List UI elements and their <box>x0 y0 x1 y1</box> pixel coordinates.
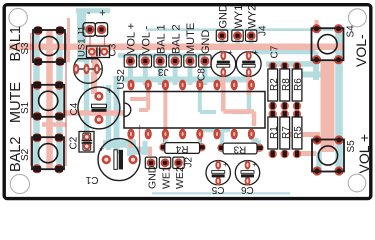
wire R2-R1 link <box>272 107 274 113</box>
wire left of J2 <box>143 141 148 155</box>
wire US1 area vertical a <box>84 57 90 133</box>
svg-text:+: + <box>252 160 257 169</box>
svg-text:WE1: WE1 <box>160 166 172 189</box>
wire right mid vertical <box>313 60 319 80</box>
wire J3 pad4 to US2 <box>173 61 178 85</box>
wire resistor tops to S4 teal <box>266 61 318 67</box>
wire inside US2 left b <box>139 88 148 110</box>
wire R5 to S5 <box>290 132 320 137</box>
wire US2 to R4 red a <box>163 134 165 142</box>
wire horizontal between J3 and US2 <box>122 77 252 83</box>
mounting hole bottom-right <box>348 174 366 192</box>
svg-text:GND: GND <box>146 165 158 189</box>
wire J4 pad2 down <box>235 36 240 48</box>
wire J3 pad5 to US2 <box>188 61 193 85</box>
svg-text:+: + <box>107 86 112 96</box>
wire J3 pad1 to US2 <box>128 61 133 85</box>
svg-text:J2: J2 <box>184 157 195 168</box>
wire long horizontal band <box>9 44 343 51</box>
wire R8-R7 link <box>284 107 286 113</box>
wire J3 pad3 to US2 <box>158 61 163 85</box>
svg-text:R5: R5 <box>293 126 304 139</box>
capacitor C3 <box>87 43 119 57</box>
capacitor C4 electrolytic <box>69 86 120 129</box>
wire R6-R5 link <box>296 107 298 113</box>
wire left button column teal 2 <box>56 28 63 169</box>
wire under resistor R6 R5 column <box>295 64 300 156</box>
resistor R3 <box>217 143 263 154</box>
wire US2 to R3 right <box>251 134 258 146</box>
svg-text:BAL 2: BAL 2 <box>170 24 182 54</box>
board outline frame <box>4 5 371 199</box>
svg-text:C7: C7 <box>270 45 281 58</box>
resistor R8 <box>280 62 292 110</box>
svg-text:R8: R8 <box>281 78 292 91</box>
capacitor C6 electrolytic <box>235 160 259 195</box>
svg-text:C8: C8 <box>197 68 208 81</box>
wire C4-C1 vertical b <box>114 76 120 154</box>
wire US2 to R3 left <box>217 130 222 145</box>
svg-text:S5: S5 <box>346 140 357 153</box>
wire below US2 horizontal <box>200 128 230 133</box>
svg-text:C1: C1 <box>85 174 98 185</box>
wire US1 area vertical b <box>92 57 98 90</box>
wire left button column teal 1 <box>33 28 40 169</box>
wire C3 to US1 <box>93 48 99 70</box>
mounting hole top-left <box>9 8 27 26</box>
capacitor C5 electrolytic <box>206 160 230 195</box>
resistor R1 <box>268 110 280 158</box>
svg-text:C5: C5 <box>211 184 224 195</box>
svg-text:WE2: WE2 <box>174 166 186 189</box>
wire top right thin <box>146 28 333 31</box>
wire teal inside US2 b <box>200 88 216 112</box>
wire US2 to R4 red b <box>200 134 202 142</box>
mounting hole bottom-left <box>10 174 29 193</box>
svg-text:R6: R6 <box>293 78 304 91</box>
wire S1 to C4 horizontal <box>64 110 124 116</box>
wire C8 into US2 <box>223 72 254 126</box>
wire J1 to C3 b <box>104 35 106 46</box>
resistor R2 <box>268 62 280 110</box>
capacitor C1 electrolytic <box>85 139 140 185</box>
pushbutton S5 <box>312 135 357 175</box>
wire under resistor R8 R7 column <box>282 64 287 156</box>
svg-text:VOL-: VOL- <box>353 34 369 67</box>
wire J3 pad6 to US2 <box>202 61 207 85</box>
wire left button column pink <box>46 30 53 169</box>
header J3 <box>124 23 212 77</box>
wire inside US2 left <box>163 88 167 132</box>
wire red right outer <box>65 33 67 166</box>
wire J1 vertical down to US1 <box>77 11 86 62</box>
pushbutton S1 <box>20 81 64 121</box>
svg-text:R2: R2 <box>269 78 280 91</box>
svg-text:C4: C4 <box>69 102 80 115</box>
svg-text:C2: C2 <box>69 136 80 149</box>
wire S4 top stub <box>315 20 319 27</box>
transistor US1 <box>73 59 102 84</box>
wire C7 to S4 teal <box>252 52 316 60</box>
wire C4-C1 vertical a <box>106 85 112 150</box>
svg-text:WY2: WY2 <box>247 5 259 29</box>
svg-text:BAL 1: BAL 1 <box>155 24 167 54</box>
wire inside US2 pink horizontal <box>130 97 148 101</box>
wire J4 pad3 down <box>249 36 254 45</box>
wire red near C1 <box>139 125 141 152</box>
svg-text:US2: US2 <box>115 69 127 90</box>
wire pink traces top copper layer <box>9 18 343 169</box>
connector J1 <box>77 7 108 57</box>
wire US2 pin1 down pink <box>129 136 133 148</box>
svg-text:VOL -: VOL - <box>141 25 153 54</box>
IC US2 pads <box>127 80 255 140</box>
resistor R5 <box>292 110 304 158</box>
mounting hole top-right <box>348 9 366 27</box>
svg-text:R3: R3 <box>233 143 246 154</box>
wire under resistor R2 R1 column <box>270 64 275 156</box>
svg-text:S2: S2 <box>20 148 31 161</box>
wire red left outer <box>30 33 32 166</box>
svg-text:S3: S3 <box>20 42 31 55</box>
svg-text:WY1: WY1 <box>233 5 245 29</box>
header J2 <box>145 157 194 190</box>
capacitor C2 <box>69 132 95 153</box>
capacitor C8 electrolytic <box>197 48 236 81</box>
wire C7 into US2 <box>246 72 251 95</box>
resistor R7 <box>280 110 292 158</box>
svg-text:+: + <box>99 8 105 20</box>
wire left of J1 pink <box>67 18 70 62</box>
svg-text:S4: S4 <box>346 25 357 38</box>
svg-text:C3: C3 <box>108 43 119 56</box>
svg-text:R4: R4 <box>175 143 188 154</box>
wire top-left horizontal to J1 <box>76 8 110 13</box>
wire teal inside US2 <box>232 85 249 112</box>
wire C1 teal area <box>103 140 136 148</box>
wire bottom long thin <box>152 192 290 194</box>
IC US2 DIP-16 <box>115 69 265 128</box>
svg-text:VOL +: VOL + <box>126 23 138 54</box>
wire J1 to C3 a <box>89 35 91 46</box>
wire teal traces bottom copper layer <box>37 11 340 194</box>
pushbutton S2 <box>20 133 64 173</box>
svg-text:J4: J4 <box>258 25 269 36</box>
svg-text:J3: J3 <box>158 66 169 77</box>
pushbutton S3 <box>20 26 65 66</box>
wire right mid horizontal <box>301 72 322 78</box>
svg-text:S1: S1 <box>20 101 31 114</box>
wire thin red airwires <box>31 33 297 166</box>
pushbutton S4 <box>312 24 357 64</box>
resistor R4 <box>159 143 205 154</box>
wire US2 pad to R4 right <box>198 134 203 145</box>
svg-text:+: + <box>228 48 233 57</box>
wire C3 to US1 red <box>91 56 93 63</box>
svg-text:-: - <box>87 7 91 19</box>
header J4 <box>216 4 268 41</box>
wire J2 GND up <box>148 147 152 156</box>
svg-text:R7: R7 <box>281 126 292 139</box>
svg-text:C6: C6 <box>241 184 254 195</box>
wire US2 pad to R4 left <box>163 134 168 145</box>
svg-text:GND: GND <box>217 4 229 29</box>
svg-text:US1 J1: US1 J1 <box>77 26 88 57</box>
wire S5 inner teal <box>316 152 322 174</box>
wire to S5 top left pad <box>296 151 316 156</box>
svg-text:MUTE: MUTE <box>185 23 197 54</box>
capacitor C7 electrolytic <box>236 45 280 77</box>
wire right button column teal <box>335 29 343 167</box>
resistor R6 <box>292 62 304 110</box>
wire right wide column <box>321 60 335 152</box>
svg-text:+: + <box>253 48 258 57</box>
svg-text:+: + <box>223 160 228 169</box>
wire US1 down to C4 <box>91 72 97 94</box>
wire S1-S2 link <box>42 122 66 127</box>
wire horizontal J3 label row <box>118 53 205 58</box>
svg-text:GND: GND <box>200 30 212 55</box>
wire C1 to J2 GND <box>131 139 152 156</box>
wire J4 pad1 down <box>220 36 225 52</box>
svg-text:R1: R1 <box>269 126 280 139</box>
svg-text:+: + <box>99 144 104 154</box>
wire J3 pad2 to US2 <box>143 61 148 85</box>
